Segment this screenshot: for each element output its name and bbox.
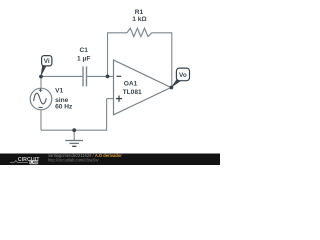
capacitor C1: [82, 66, 84, 86]
wire: node A to C1 left (top rail left): [41, 75, 83, 77]
wire: V1 top vertical: [40, 76, 42, 88]
wire: plus input stub: [107, 98, 114, 100]
node B junction dot (inverting input): [106, 75, 110, 79]
op-amp minus sign: [117, 75, 122, 77]
svg-text:1 kΩ: 1 kΩ: [132, 16, 147, 23]
V1 sine symbol: [34, 93, 47, 104]
op-amp plus sign: [116, 98, 122, 100]
svg-text:LAB: LAB: [30, 161, 38, 165]
V1 plus mark: [39, 89, 43, 91]
wire: R1 left lead: [107, 32, 127, 34]
ground: [73, 130, 75, 140]
svg-text:http://circuitlab.com/c8se5w: http://circuitlab.com/c8se5w: [48, 157, 98, 162]
svg-text:C1: C1: [79, 47, 88, 54]
wire: bottom rail: [41, 129, 107, 131]
resistor R1: [127, 28, 152, 36]
wire: feedback left vertical (node B up to R1): [107, 33, 109, 77]
watermark bar: [0, 154, 220, 166]
op-amp OA1: [114, 60, 172, 115]
watermark logo LAB: [30, 160, 39, 164]
svg-text:OA1: OA1: [124, 81, 138, 88]
svg-text:Vi: Vi: [44, 58, 50, 65]
node output junction dot: [170, 86, 174, 90]
source V1: [30, 88, 52, 110]
svg-text:TL081: TL081: [123, 89, 142, 96]
wire: V1 bottom vertical: [40, 110, 42, 131]
wire: R1 right lead: [152, 32, 172, 34]
wire: plus input vertical: [106, 99, 108, 131]
node A junction dot: [39, 75, 43, 79]
svg-text:60 Hz: 60 Hz: [55, 104, 73, 111]
svg-text:V1: V1: [55, 88, 63, 95]
wire: feedback right vertical down to output node: [171, 32, 173, 87]
svg-text:Vo: Vo: [179, 72, 187, 79]
V1 minus mark: [39, 106, 43, 108]
node ground junction dot: [72, 128, 76, 132]
flag Vo pointer: [171, 79, 181, 88]
wire: C1 right to op-amp minus input: [86, 75, 113, 77]
svg-text:1 µF: 1 µF: [77, 55, 90, 62]
flag Vi pointer: [41, 66, 47, 78]
flag Vi: [42, 56, 52, 66]
watermark logo circuit trace: [10, 161, 28, 163]
flag Vo: [176, 68, 189, 81]
